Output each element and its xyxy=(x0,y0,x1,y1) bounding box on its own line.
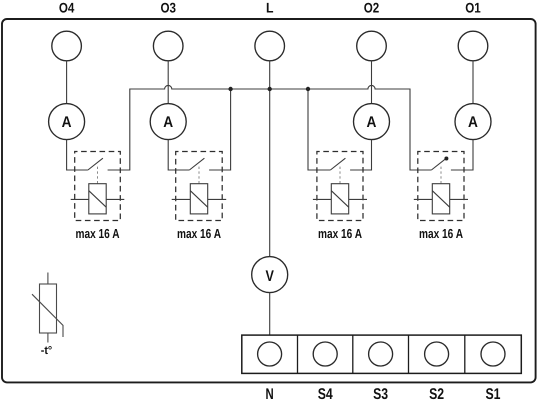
junction dot bus/L line xyxy=(268,87,272,91)
wire L terminal to voltmeter xyxy=(269,61,271,257)
wire ammeter O3 to relay switch xyxy=(168,140,189,170)
wire O4 terminal to ammeter xyxy=(66,61,68,104)
svg-text:O3: O3 xyxy=(160,0,176,16)
svg-text:S1: S1 xyxy=(486,386,501,400)
svg-text:-t°: -t° xyxy=(41,345,53,357)
svg-text:O4: O4 xyxy=(59,0,75,16)
terminal block divider 2 xyxy=(352,335,354,373)
wire bus drop to relay O3 xyxy=(209,89,231,170)
junction dot relay O1 blade tip xyxy=(444,157,448,161)
svg-text:A: A xyxy=(62,114,72,131)
terminal L xyxy=(255,0,285,61)
terminal block divider 3 xyxy=(408,335,410,373)
ammeter A channel O1 xyxy=(455,104,491,140)
svg-text:V: V xyxy=(266,268,275,285)
svg-text:A: A xyxy=(367,114,377,131)
ammeter A channel O4 xyxy=(49,104,85,140)
relay O3 actuator link (dashed) xyxy=(198,167,200,184)
relay O2 boundary (dashed) xyxy=(317,152,363,221)
relay O4 switch contact xyxy=(88,158,103,170)
relay O3 coil xyxy=(172,184,227,214)
wire ammeter O2 to relay switch xyxy=(350,140,371,170)
terminal S2 xyxy=(425,342,449,400)
relay O3 boundary (dashed) xyxy=(176,152,223,221)
wire bus drop to relay O2 xyxy=(308,89,330,170)
svg-text:O2: O2 xyxy=(364,0,380,16)
ammeter A channel O3 xyxy=(150,104,186,140)
terminal O4 xyxy=(52,0,82,61)
svg-text:max 16 A: max 16 A xyxy=(419,226,463,241)
terminal block divider 1 xyxy=(297,335,299,373)
wire L bus with hops over O3 and O2 lines xyxy=(108,85,432,170)
relay O4 boundary (dashed) xyxy=(75,152,121,221)
svg-text:A: A xyxy=(468,114,478,131)
terminal block divider 4 xyxy=(464,335,466,373)
relay O4 coil xyxy=(71,184,125,214)
junction dot bus/O2 drop xyxy=(306,87,310,91)
terminal block outline xyxy=(242,335,522,373)
svg-text:N: N xyxy=(266,386,274,400)
ammeter A channel O2 xyxy=(354,104,390,140)
svg-text:S2: S2 xyxy=(429,386,444,400)
terminal S3 xyxy=(369,342,393,400)
relay O2 switch contact xyxy=(330,158,345,170)
svg-text:max 16 A: max 16 A xyxy=(318,226,362,241)
relay O2 actuator link (dashed) xyxy=(339,167,341,184)
terminal O1 xyxy=(458,0,488,61)
wire O1 terminal to ammeter xyxy=(472,61,474,104)
wire voltmeter to terminal N xyxy=(269,293,271,336)
relay O4 actuator link (dashed) xyxy=(97,167,99,184)
wire O3 terminal to ammeter xyxy=(167,61,169,104)
terminal O3 xyxy=(153,0,183,61)
terminal S1 xyxy=(481,342,505,400)
terminal N xyxy=(258,342,282,400)
relay O1 coil xyxy=(414,184,468,214)
svg-text:O1: O1 xyxy=(465,0,481,16)
relay O2 coil xyxy=(313,184,367,214)
svg-text:S3: S3 xyxy=(373,386,388,400)
terminal O2 xyxy=(357,0,387,61)
voltmeter V xyxy=(252,257,288,293)
svg-text:max 16 A: max 16 A xyxy=(177,226,221,241)
svg-text:S4: S4 xyxy=(318,386,333,400)
relay O1 boundary (dashed) xyxy=(418,152,464,221)
wire ammeter O4 to relay switch xyxy=(67,140,88,170)
relay O1 actuator link (dashed) xyxy=(440,167,442,184)
thermistor -t° xyxy=(32,273,63,358)
svg-text:max 16 A: max 16 A xyxy=(76,226,120,241)
wire O2 terminal to ammeter xyxy=(371,61,373,104)
svg-text:A: A xyxy=(163,114,173,131)
relay O3 switch contact xyxy=(189,158,204,170)
terminal S4 xyxy=(313,342,337,400)
wire ammeter O1 to relay switch xyxy=(451,140,473,170)
junction dot bus/O3 drop xyxy=(228,87,232,91)
relay O1 switch contact xyxy=(431,158,446,170)
svg-text:L: L xyxy=(266,0,274,16)
